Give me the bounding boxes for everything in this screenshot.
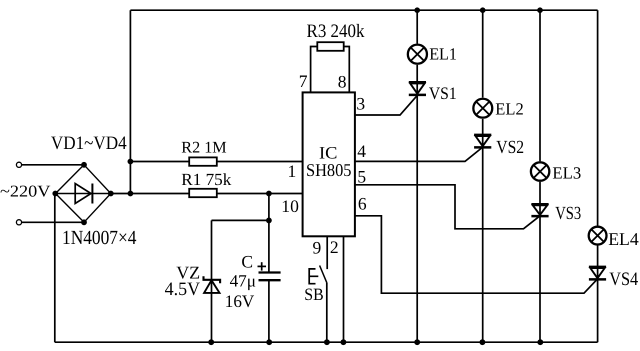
svg-text:16V: 16V	[225, 291, 255, 311]
capacitor C plates	[259, 273, 281, 281]
svg-text:SH805: SH805	[306, 160, 352, 180]
svg-text:VS4: VS4	[609, 269, 638, 290]
svg-text:4: 4	[357, 141, 366, 161]
svg-text:R3 240k: R3 240k	[307, 21, 365, 42]
wire C branch vertical	[268, 194, 270, 343]
resistor R3	[317, 42, 343, 51]
thyristor VS2	[474, 135, 491, 148]
wire bridge horizontal diode line	[56, 193, 111, 195]
wire switch to bottom rail	[326, 282, 328, 342]
svg-text:EL2: EL2	[495, 99, 523, 118]
svg-text:6: 6	[358, 193, 367, 213]
svg-text:3: 3	[356, 93, 365, 113]
svg-text:4.5V: 4.5V	[165, 279, 201, 300]
svg-text:1N4007×4: 1N4007×4	[62, 227, 137, 249]
junction bottom rail / C	[266, 339, 272, 345]
wire branch 1 vertical (EL1/VS1)	[416, 10, 418, 342]
wire pin 8 lead	[344, 47, 350, 93]
junction C branch / VZ tap	[266, 218, 272, 224]
thyristor VS3	[531, 204, 548, 216]
svg-text:VS2: VS2	[496, 138, 524, 158]
junction bottom rail / pin 2	[341, 339, 347, 345]
thyristor VS1	[409, 82, 426, 95]
wire pin 4 to VS2 gate	[355, 147, 483, 161]
wire branch 3 vertical (EL3/VS3)	[539, 10, 541, 342]
junction top rail / branch EL3	[537, 7, 543, 13]
wire VZ branch	[212, 220, 269, 342]
wire left bottom vertical from bridge left corner	[54, 194, 56, 343]
junction top rail / branch EL1	[414, 7, 420, 13]
diode inside bridge	[75, 184, 92, 204]
lamp EL1	[408, 45, 427, 64]
junction DC+ vertical / R2 tap	[127, 159, 133, 165]
junction bottom rail / SB	[324, 339, 330, 345]
svg-text:VS3: VS3	[555, 204, 581, 224]
zener diode VZ	[204, 276, 221, 293]
wire R2 line to IC pin 1	[130, 161, 302, 163]
lamp EL2	[473, 99, 492, 118]
svg-text:2: 2	[330, 237, 339, 257]
svg-text:47μ: 47μ	[230, 272, 256, 291]
wire pin 5 to VS3 gate	[355, 185, 540, 229]
IC U1 SH805 box	[303, 92, 355, 236]
wire pin 6 to VS4 gate	[355, 216, 598, 293]
junction bottom rail / branch EL2	[480, 339, 486, 345]
wire bridge output to R1 to IC pin 10	[111, 193, 303, 195]
svg-text:R2 1M: R2 1M	[181, 139, 226, 157]
svg-text:EL4: EL4	[608, 229, 639, 249]
svg-text:~220V: ~220V	[0, 182, 51, 201]
svg-text:1: 1	[288, 161, 297, 181]
junction bottom rail / VZ	[208, 339, 214, 345]
resistor R2	[189, 157, 217, 165]
svg-text:SB: SB	[304, 285, 323, 304]
lamp EL4	[589, 227, 607, 245]
resistor R1	[189, 189, 217, 197]
svg-text:R1 75k: R1 75k	[181, 170, 231, 189]
wire top rail	[130, 9, 597, 11]
junction bottom rail / branch EL1	[414, 339, 420, 345]
lamp EL3	[531, 162, 549, 180]
junction bridge left corner (DC-)	[52, 191, 58, 197]
junction R1 line / C branch	[266, 191, 272, 197]
wire AC top terminal to bridge	[22, 164, 84, 166]
svg-text:8: 8	[338, 72, 347, 92]
svg-text:10: 10	[281, 196, 299, 216]
wire pin 9 to switch	[326, 236, 328, 269]
junction top rail / branch EL2	[480, 7, 486, 13]
svg-text:9: 9	[313, 238, 322, 258]
svg-text:C: C	[241, 251, 253, 271]
wire pin 7 lead	[311, 47, 318, 93]
wire left vertical from top rail to bridge output	[129, 10, 131, 193]
wire pin 3 to VS1 gate	[355, 95, 417, 115]
svg-text:5: 5	[357, 166, 366, 186]
junction bridge top corner (AC in)	[81, 162, 87, 168]
capacitor C plus sign	[258, 262, 267, 270]
wire bottom rail	[55, 341, 598, 343]
switch SB	[309, 266, 327, 284]
svg-text:EL3: EL3	[552, 164, 581, 183]
thyristor VS4	[589, 267, 606, 280]
wire pin 2 to bottom rail	[343, 236, 345, 342]
bridge rectifier VD1-VD4 diamond	[56, 165, 111, 223]
junction DC+ vertical / R1 line	[127, 191, 133, 197]
wire AC bottom terminal to bridge	[22, 221, 84, 223]
AC input terminals	[16, 162, 21, 167]
junction bridge right corner (DC+)	[108, 191, 114, 197]
svg-text:VD1~VD4: VD1~VD4	[51, 133, 127, 154]
svg-text:EL1: EL1	[429, 44, 457, 63]
svg-text:7: 7	[299, 71, 308, 91]
wire branch 2 vertical (EL2/VS2)	[482, 10, 484, 342]
svg-text:VS1: VS1	[429, 83, 457, 103]
junction bottom rail / branch EL3	[537, 339, 543, 345]
junction bridge bottom corner (AC in)	[81, 219, 87, 225]
wire branch 4 vertical (EL4/VS4, right frame)	[597, 10, 599, 342]
